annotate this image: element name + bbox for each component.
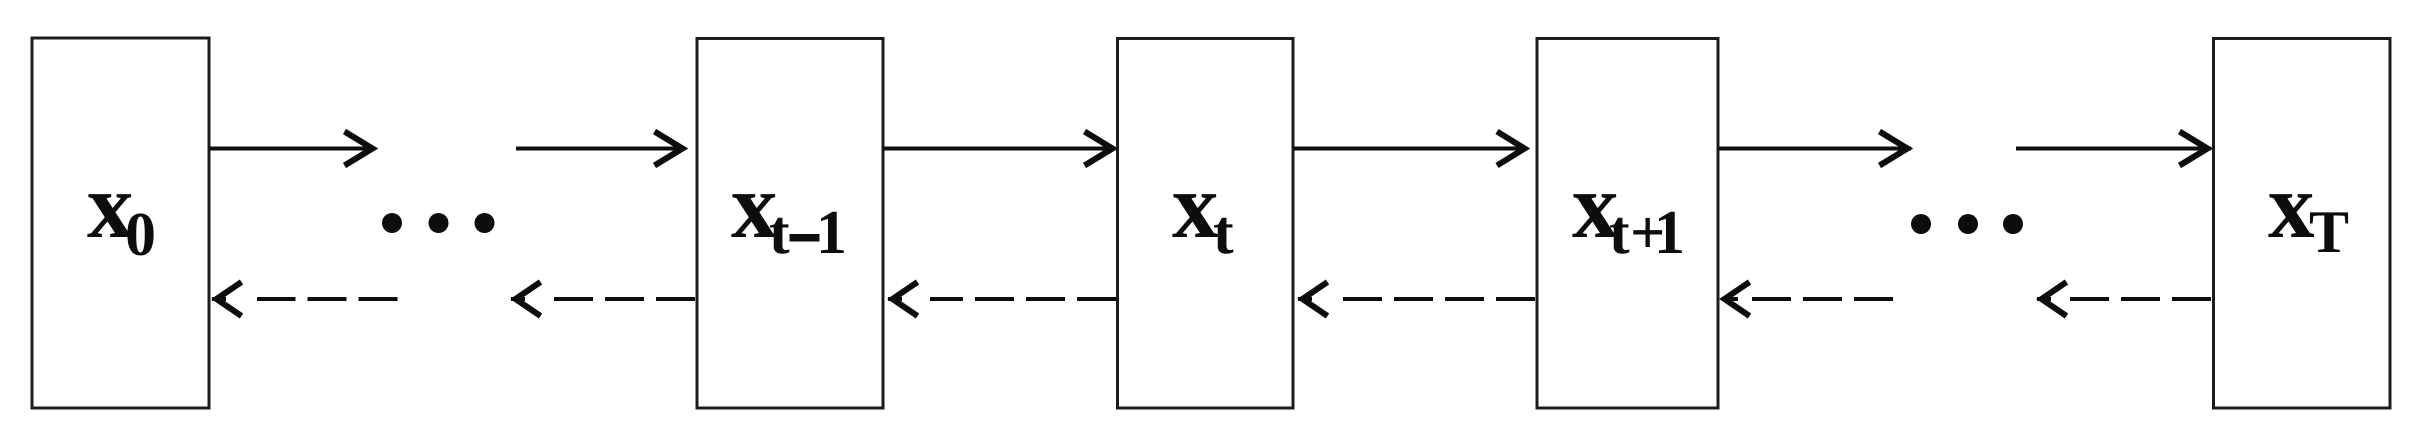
reverse dashed arrow xt+1 to xt bbox=[1298, 282, 1535, 316]
state box xT bbox=[2214, 39, 2391, 409]
label xT bbox=[2268, 155, 2349, 265]
state box xt bbox=[1118, 39, 1294, 409]
state box xt+1 bbox=[1537, 39, 1718, 409]
forward arrow ellipsis to xT bbox=[2016, 132, 2211, 166]
forward arrow x0 to ellipsis bbox=[209, 132, 374, 166]
label xt-1 bbox=[731, 155, 847, 267]
reverse dashed arrow xt to xt-1 bbox=[888, 282, 1116, 316]
svg-text:T: T bbox=[2309, 199, 2349, 265]
svg-text:x: x bbox=[2268, 155, 2315, 258]
reverse dashed arrow ellipsis to x0 bbox=[212, 282, 398, 316]
svg-text:t: t bbox=[1609, 199, 1630, 267]
forward arrow xt-1 to xt bbox=[883, 132, 1114, 166]
forward arrow xt+1 to ellipsis bbox=[1719, 132, 1911, 166]
svg-text:t: t bbox=[1213, 199, 1234, 267]
label x0 bbox=[87, 155, 156, 269]
state box xt-1 bbox=[697, 39, 883, 409]
reverse dashed arrow xt-1 to ellipsis bbox=[511, 282, 695, 316]
svg-text:0: 0 bbox=[125, 201, 156, 269]
reverse dashed arrow xT to ellipsis bbox=[2037, 282, 2211, 316]
svg-text:t: t bbox=[769, 199, 790, 267]
ellipsis dots left bbox=[382, 213, 495, 233]
svg-text:1: 1 bbox=[1654, 199, 1685, 267]
reverse dashed arrow ellipsis to xt+1 bbox=[1724, 282, 1893, 316]
forward arrow xt to xt+1 bbox=[1293, 132, 1526, 166]
ellipsis dots right bbox=[1911, 214, 2023, 234]
forward arrow ellipsis to xt-1 bbox=[516, 132, 684, 166]
svg-text:1: 1 bbox=[816, 199, 847, 267]
svg-text:x: x bbox=[1172, 155, 1219, 258]
state box x0 bbox=[32, 38, 209, 408]
label xt bbox=[1172, 155, 1234, 267]
label xt+1 bbox=[1572, 155, 1685, 267]
